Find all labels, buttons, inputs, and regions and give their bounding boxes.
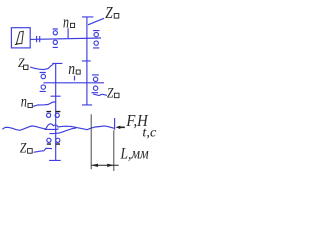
svg-text:Z: Z <box>20 140 27 156</box>
svg-text:t,с: t,с <box>142 125 157 140</box>
svg-text:L,мм: L,мм <box>120 145 149 162</box>
svg-text:n: n <box>63 13 69 32</box>
svg-text:n: n <box>21 93 27 110</box>
svg-text:Z: Z <box>107 85 114 101</box>
svg-text:Z: Z <box>105 3 113 22</box>
svg-text:n: n <box>68 59 75 78</box>
